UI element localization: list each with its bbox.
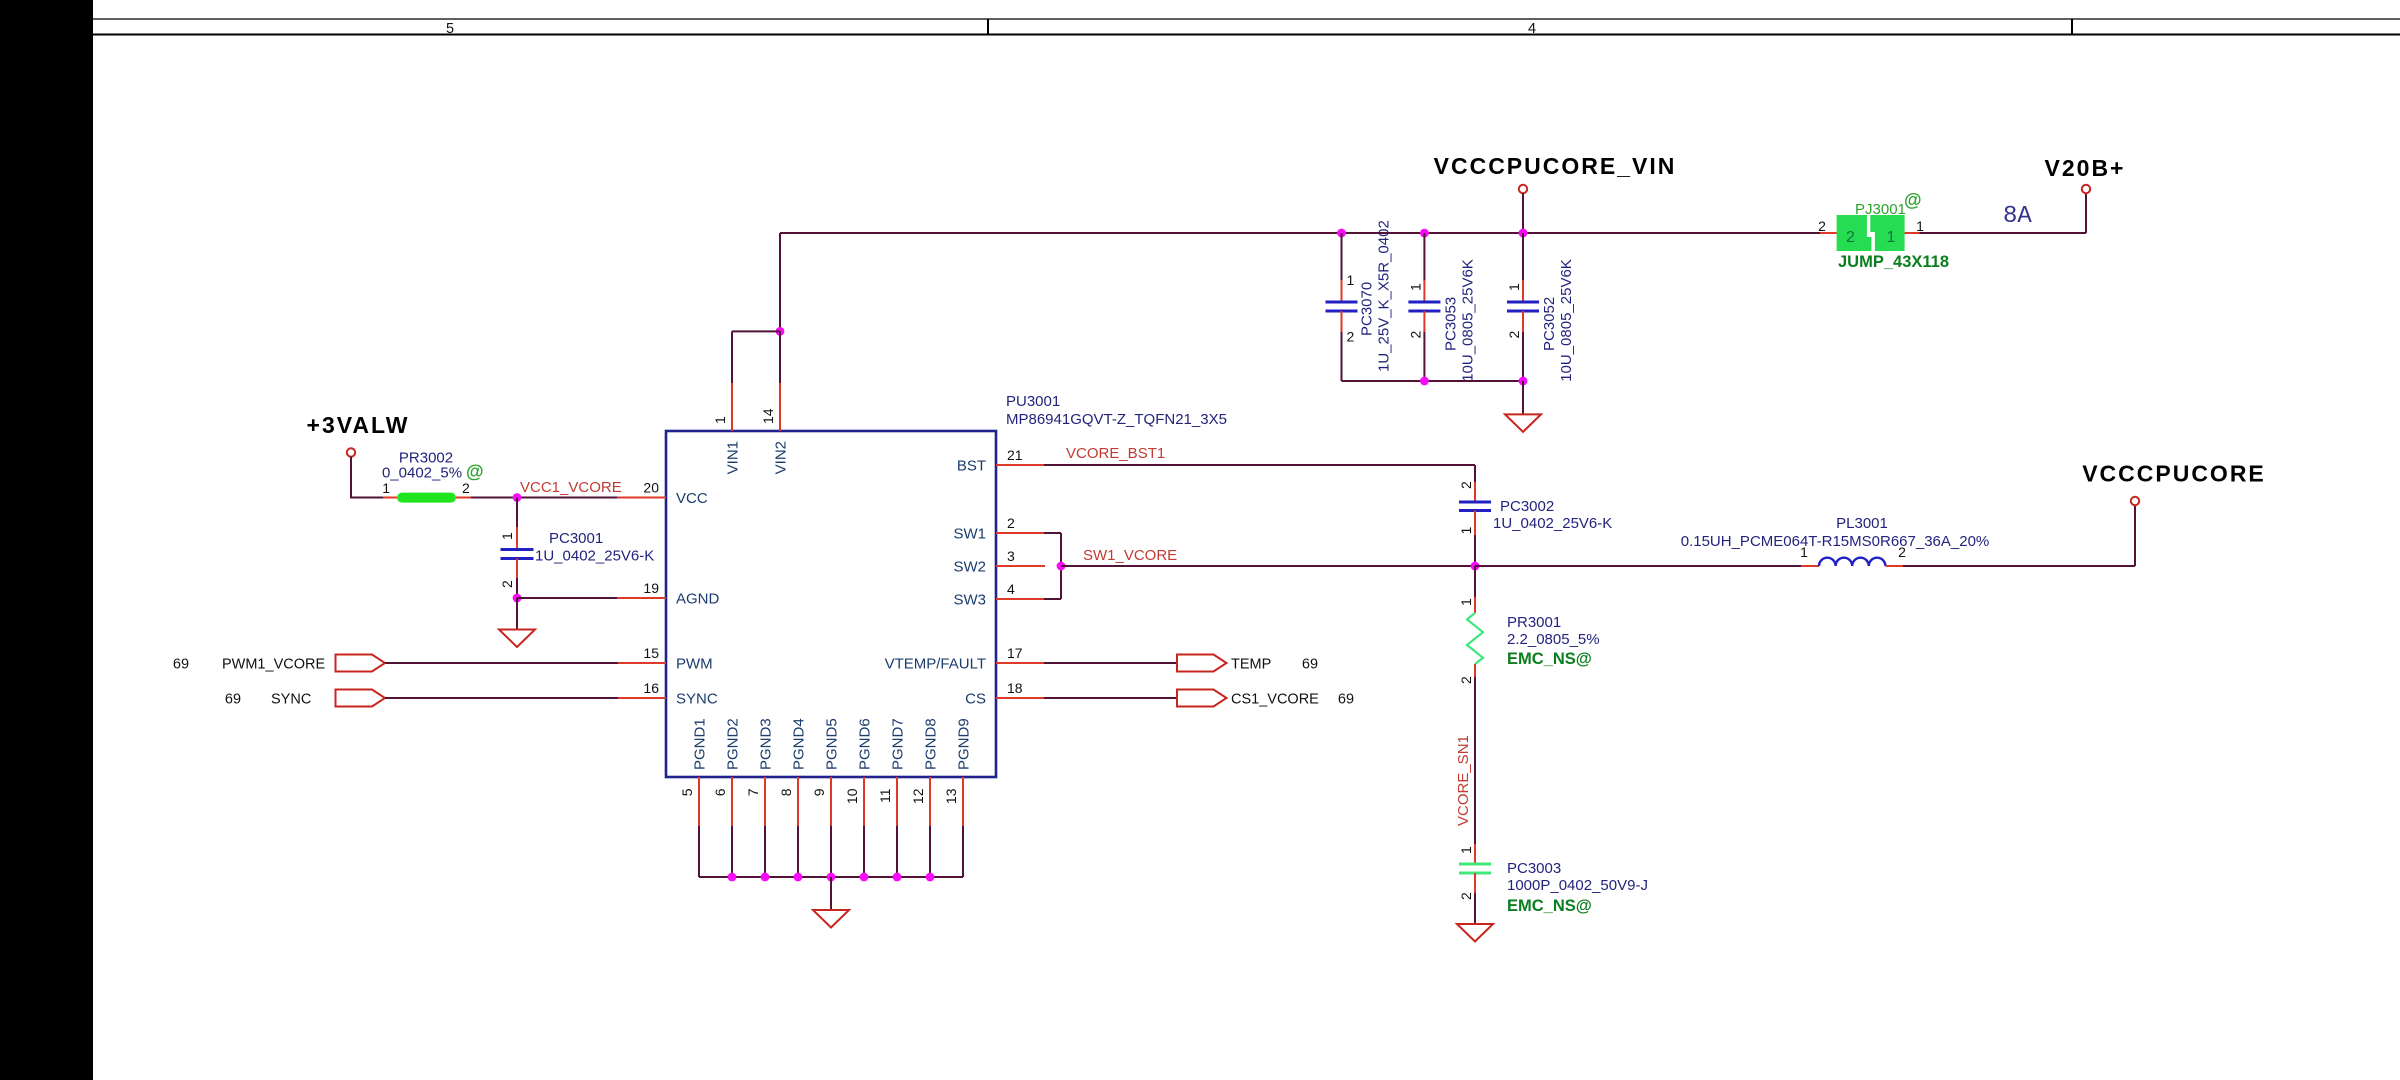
svg-text:1: 1 <box>1458 598 1474 606</box>
wire PGND9 down <box>962 826 964 877</box>
resistor PR3001 zigzag <box>1467 613 1483 664</box>
wire VIN1 drop <box>731 331 733 383</box>
svg-text:PGND2: PGND2 <box>725 718 742 770</box>
capacitor PC3003 plate top <box>1459 863 1491 866</box>
svg-text:5: 5 <box>446 21 454 37</box>
net connector arrow SYNC <box>336 690 386 707</box>
node PGND rail junction 4 <box>827 873 836 882</box>
capacitor PC3070 stub 2 <box>1341 311 1343 333</box>
pin 19 AGND stub <box>617 597 666 599</box>
wire VIN branch horizontal <box>732 330 780 332</box>
svg-text:69: 69 <box>173 657 189 673</box>
wire BST horizontal <box>1044 464 1475 466</box>
svg-text:PWM: PWM <box>676 656 713 673</box>
capacitor PC3052 stub 1 <box>1522 280 1524 302</box>
capacitor PC3070 plate bottom <box>1326 310 1358 313</box>
capacitor PC3053 plate top <box>1408 301 1440 304</box>
sheet border line top <box>93 18 2400 20</box>
svg-text:8A: 8A <box>2003 203 2032 230</box>
capacitor PC3053 wire top <box>1423 233 1425 281</box>
capacitor PC3002 plate bottom <box>1459 509 1491 512</box>
svg-text:SW1_VCORE: SW1_VCORE <box>1083 547 1177 564</box>
wire SW horizontal <box>1061 565 1475 567</box>
svg-text:2: 2 <box>1458 892 1474 900</box>
capacitor PC3052 wire top <box>1522 233 1524 281</box>
jumper PJ3001 slot <box>1867 215 1875 251</box>
wire PC3002 to SW node <box>1474 535 1476 566</box>
capacitor PC3002 stub 1 <box>1474 511 1476 537</box>
svg-text:CS1_VCORE: CS1_VCORE <box>1231 692 1319 708</box>
node bus junction PC3053 <box>1420 229 1429 238</box>
svg-text:SW2: SW2 <box>953 559 986 576</box>
svg-text:1: 1 <box>1458 846 1474 854</box>
pin 21 BST stub <box>996 464 1045 466</box>
sheet border tick 2 <box>2071 19 2073 35</box>
svg-text:12: 12 <box>910 788 926 804</box>
pin 13 PGND9 stub <box>962 777 964 827</box>
wire SW connector vertical <box>1060 533 1062 599</box>
pin 3 SW2 stub <box>996 565 1045 567</box>
svg-text:4: 4 <box>1528 21 1536 37</box>
node VIN branch junction <box>776 327 785 336</box>
svg-text:2: 2 <box>1818 218 1826 234</box>
svg-text:69: 69 <box>1302 657 1318 673</box>
capacitor PC3052 plate bottom <box>1507 310 1539 313</box>
svg-text:VCC: VCC <box>676 490 708 507</box>
svg-text:20: 20 <box>643 480 659 496</box>
ground PC3003 <box>1457 924 1493 942</box>
svg-text:10U_0805_25V6K: 10U_0805_25V6K <box>1459 259 1476 382</box>
svg-text:2: 2 <box>1347 329 1355 345</box>
svg-text:PGND6: PGND6 <box>857 718 874 770</box>
wire SW1 to connector <box>1044 532 1061 534</box>
pin 6 PGND2 stub <box>731 777 733 827</box>
svg-text:+3VALW: +3VALW <box>307 412 410 438</box>
svg-text:VCORE_BST1: VCORE_BST1 <box>1066 445 1165 462</box>
node PGND rail junction 2 <box>761 873 770 882</box>
svg-text:2: 2 <box>1458 676 1474 684</box>
pin 18 CS stub <box>996 697 1045 699</box>
wire PGND ground stem <box>830 877 832 910</box>
svg-text:PGND4: PGND4 <box>791 718 808 770</box>
svg-text:18: 18 <box>1007 680 1023 696</box>
svg-text:1: 1 <box>1506 283 1522 291</box>
svg-text:1: 1 <box>499 532 515 540</box>
svg-text:1U_25V_K_X5R_0402: 1U_25V_K_X5R_0402 <box>1376 220 1393 372</box>
svg-text:11: 11 <box>877 788 893 803</box>
node SW junction <box>1057 562 1066 571</box>
wire BST corner down <box>1474 465 1476 483</box>
wire VIN ground stem <box>1522 381 1524 414</box>
wire VIN2 drop <box>779 331 781 383</box>
resistor PR3001 stub 2 <box>1474 664 1476 678</box>
wire caps bottom rail <box>1342 380 1524 382</box>
svg-text:PC3001: PC3001 <box>549 530 603 547</box>
svg-text:MP86941GQVT-Z_TQFN21_3X5: MP86941GQVT-Z_TQFN21_3X5 <box>1006 411 1227 428</box>
node AGND junction <box>513 594 522 603</box>
wire bus corner down <box>779 233 781 331</box>
svg-text:PU3001: PU3001 <box>1006 393 1060 410</box>
jumper PJ3001 body <box>1837 215 1905 251</box>
pin 1 VIN1 stub <box>731 382 733 431</box>
wire V20B+ stem <box>2085 193 2087 233</box>
node PGND rail junction 6 <box>893 873 902 882</box>
svg-text:PJ3001: PJ3001 <box>1855 201 1906 218</box>
wire PGND4 down <box>797 826 799 877</box>
svg-text:13: 13 <box>943 788 959 804</box>
pin 5 PGND1 stub <box>698 777 700 827</box>
net connector arrow CS1_VCORE <box>1177 690 1227 707</box>
svg-text:7: 7 <box>745 788 761 796</box>
wire input bus <box>780 232 1820 234</box>
svg-text:VIN1: VIN1 <box>725 441 742 474</box>
svg-text:15: 15 <box>643 645 659 661</box>
pin 14 VIN2 stub <box>779 382 781 431</box>
pin 15 PWM stub <box>617 662 666 664</box>
svg-text:19: 19 <box>643 580 659 596</box>
svg-text:1: 1 <box>1347 272 1355 288</box>
pin 7 PGND3 stub <box>764 777 766 827</box>
pin 16 SYNC stub <box>617 697 666 699</box>
wire PGND5 down <box>830 826 832 877</box>
svg-text:3: 3 <box>1007 548 1015 564</box>
resistor PR3001 stub 1 <box>1474 597 1476 613</box>
op-amp U PU3001 body <box>666 431 996 777</box>
svg-text:14: 14 <box>760 408 776 424</box>
svg-text:VIN2: VIN2 <box>773 441 790 474</box>
svg-text:PC3070: PC3070 <box>1359 282 1376 336</box>
capacitor PC3070 plate top <box>1326 301 1358 304</box>
svg-text:1: 1 <box>1407 283 1423 291</box>
svg-text:1: 1 <box>712 416 728 424</box>
svg-text:9: 9 <box>811 788 827 796</box>
svg-text:17: 17 <box>1007 645 1023 661</box>
wire CS to arrow <box>1044 697 1177 699</box>
wire SW3 to connector <box>1044 598 1061 600</box>
svg-text:2: 2 <box>1407 331 1423 339</box>
pin 2 SW1 stub <box>996 532 1045 534</box>
wire AGND ground stem <box>516 598 518 630</box>
pin 12 PGND8 stub <box>929 777 931 827</box>
svg-text:0.15UH_PCME064T-R15MS0R667_36A: 0.15UH_PCME064T-R15MS0R667_36A_20% <box>1681 533 1990 550</box>
svg-text:PWM1_VCORE: PWM1_VCORE <box>222 657 325 673</box>
terminal V20B+ <box>2082 185 2090 193</box>
svg-text:10: 10 <box>844 788 860 804</box>
svg-text:VCC1_VCORE: VCC1_VCORE <box>520 479 622 496</box>
svg-text:4: 4 <box>1007 581 1015 597</box>
svg-text:1: 1 <box>1916 218 1924 234</box>
wire VCCCPUCORE stem <box>2134 505 2136 566</box>
svg-text:JUMP_43X118: JUMP_43X118 <box>1838 253 1949 271</box>
svg-text:2: 2 <box>1007 515 1015 531</box>
svg-text:5: 5 <box>679 788 695 796</box>
svg-text:6: 6 <box>712 788 728 796</box>
capacitor PC3002 stub 2 <box>1474 482 1476 502</box>
wire PC3001 to AGND row <box>516 578 518 598</box>
svg-text:SW3: SW3 <box>953 592 986 609</box>
pin 8 PGND4 stub <box>797 777 799 827</box>
net connector arrow TEMP <box>1177 655 1227 672</box>
svg-text:1U_0402_25V6-K: 1U_0402_25V6-K <box>535 548 654 565</box>
capacitor PC3053 wire bottom <box>1423 332 1425 381</box>
net connector arrow PWM1_VCORE <box>336 655 386 672</box>
ground AGND <box>499 630 535 648</box>
svg-text:@: @ <box>466 462 484 482</box>
wire SYNC to IC <box>385 697 618 699</box>
jumper PJ3001 stub 2 <box>1820 232 1837 234</box>
svg-text:PC3002: PC3002 <box>1500 498 1554 515</box>
svg-text:VCORE_SN1: VCORE_SN1 <box>1455 735 1472 826</box>
wire jumper to V20B+ <box>1920 232 2087 234</box>
svg-text:1000P_0402_50V9-J: 1000P_0402_50V9-J <box>1507 877 1648 894</box>
svg-text:10U_0805_25V6K: 10U_0805_25V6K <box>1558 259 1575 382</box>
wire PGND6 down <box>863 826 865 877</box>
wire SW junction down <box>1474 566 1476 598</box>
ground VIN caps <box>1505 414 1541 432</box>
svg-text:AGND: AGND <box>676 591 720 608</box>
wire +3VALW down <box>350 457 352 498</box>
svg-text:PC3052: PC3052 <box>1541 297 1558 351</box>
capacitor PC3002 plate top <box>1459 501 1491 504</box>
wire PWM1_VCORE to IC <box>385 662 618 664</box>
svg-text:1U_0402_25V6-K: 1U_0402_25V6-K <box>1493 515 1612 532</box>
svg-text:PGND9: PGND9 <box>956 718 973 770</box>
wire PGND2 down <box>731 826 733 877</box>
svg-text:VCCCPUCORE_VIN: VCCCPUCORE_VIN <box>1434 153 1677 179</box>
svg-text:PR3001: PR3001 <box>1507 614 1561 631</box>
svg-text:2.2_0805_5%: 2.2_0805_5% <box>1507 631 1600 648</box>
wire VCCCPUCORE_VIN stem <box>1522 193 1524 233</box>
svg-text:SYNC: SYNC <box>676 691 718 708</box>
svg-text:PC3053: PC3053 <box>1442 297 1459 351</box>
svg-text:1: 1 <box>1887 229 1896 246</box>
svg-text:@: @ <box>1904 190 1922 210</box>
capacitor PC3001 stub 1 <box>516 527 518 550</box>
wire VTEMP to arrow <box>1044 662 1177 664</box>
svg-text:2: 2 <box>499 580 515 588</box>
capacitor PC3053 stub 2 <box>1423 311 1425 333</box>
jumper PJ3001 stub 1 <box>1905 232 1921 234</box>
resistor PR3002 body <box>397 493 456 503</box>
svg-text:2: 2 <box>1846 229 1855 246</box>
resistor PR3002 stub 1 <box>383 497 397 499</box>
ground PGND <box>813 910 849 928</box>
svg-text:8: 8 <box>778 788 794 796</box>
capacitor PC3052 plate top <box>1507 301 1539 304</box>
svg-text:VTEMP/FAULT: VTEMP/FAULT <box>885 656 986 673</box>
terminal VCCCPUCORE_VIN <box>1519 185 1527 193</box>
svg-text:2: 2 <box>1458 481 1474 489</box>
svg-text:EMC_NS@: EMC_NS@ <box>1507 650 1592 668</box>
inductor PL3001 stub 2 <box>1885 565 1903 567</box>
svg-text:BST: BST <box>957 458 986 475</box>
svg-text:SYNC: SYNC <box>271 692 311 708</box>
pin 17 VTEMP/FAULT stub <box>996 662 1045 664</box>
sheet border tick 1 <box>987 19 989 35</box>
pin 10 PGND6 stub <box>863 777 865 827</box>
pin 20 VCC stub <box>617 497 666 499</box>
terminal VCCCPUCORE <box>2131 497 2139 505</box>
svg-text:PGND3: PGND3 <box>758 718 775 770</box>
svg-text:0_0402_5%: 0_0402_5% <box>382 465 462 482</box>
capacitor PC3070 wire bottom <box>1341 332 1343 381</box>
wire AGND to IC <box>517 597 617 599</box>
capacitor PC3053 plate bottom <box>1408 310 1440 313</box>
resistor PR3002 stub 2 <box>456 497 472 499</box>
node PGND rail junction 1 <box>728 873 737 882</box>
wire SW to inductor <box>1475 565 1802 567</box>
svg-text:CS: CS <box>965 691 986 708</box>
svg-text:V20B+: V20B+ <box>2045 155 2126 181</box>
terminal +3VALW <box>347 448 355 456</box>
node VCC1_VCORE junction <box>513 493 522 502</box>
capacitor PC3001 stub 2 <box>516 559 518 580</box>
wire junction down to PC3001 <box>516 498 518 529</box>
capacitor PC3052 wire bottom <box>1522 332 1524 381</box>
wire PGND8 down <box>929 826 931 877</box>
node PGND rail junction 5 <box>860 873 869 882</box>
svg-text:PC3003: PC3003 <box>1507 860 1561 877</box>
svg-text:1: 1 <box>382 480 390 496</box>
wire PGND bottom rail <box>699 876 963 878</box>
svg-text:SW1: SW1 <box>953 526 986 543</box>
sheet border line bottom of band <box>93 34 2400 36</box>
svg-text:PGND8: PGND8 <box>923 718 940 770</box>
capacitor PC3001 plate bottom <box>501 557 534 560</box>
node rail junction PC3052 <box>1519 377 1528 386</box>
capacitor PC3052 stub 2 <box>1522 311 1524 333</box>
svg-text:21: 21 <box>1007 447 1023 463</box>
node SW PC3002 junction <box>1471 562 1480 571</box>
node rail junction PC3053 <box>1420 377 1429 386</box>
svg-text:2: 2 <box>462 480 470 496</box>
capacitor PC3070 stub 1 <box>1341 280 1343 302</box>
wire PC3003 to ground <box>1474 893 1476 924</box>
wire VCORE_SN1 <box>1474 677 1476 845</box>
pin 11 PGND7 stub <box>896 777 898 827</box>
svg-text:PGND7: PGND7 <box>890 718 907 770</box>
sheet margin black bar <box>0 0 93 1080</box>
wire PR3002 to VCC node <box>471 497 617 499</box>
svg-text:69: 69 <box>1338 692 1354 708</box>
wire inductor to VCCCPUCORE <box>1903 565 2135 567</box>
svg-text:VCCCPUCORE: VCCCPUCORE <box>2082 461 2266 487</box>
pin 4 SW3 stub <box>996 598 1045 600</box>
capacitor PC3001 plate top <box>501 548 534 551</box>
node PGND rail junction 7 <box>926 873 935 882</box>
capacitor PC3003 stub 2 <box>1474 873 1476 894</box>
capacitor PC3053 stub 1 <box>1423 280 1425 302</box>
svg-text:PGND1: PGND1 <box>692 718 709 770</box>
capacitor PC3003 plate bottom <box>1459 872 1491 875</box>
capacitor PC3070 wire top <box>1341 233 1343 281</box>
svg-text:69: 69 <box>225 692 241 708</box>
wire PGND7 down <box>896 826 898 877</box>
svg-text:PGND5: PGND5 <box>824 718 841 770</box>
node bus junction PC3052 <box>1519 229 1528 238</box>
svg-text:PL3001: PL3001 <box>1836 515 1888 532</box>
node PGND rail junction 3 <box>794 873 803 882</box>
svg-text:16: 16 <box>643 680 659 696</box>
capacitor PC3003 stub 1 <box>1474 844 1476 864</box>
inductor PL3001 stub 1 <box>1801 565 1819 567</box>
pin 9 PGND5 stub <box>830 777 832 827</box>
wire PGND1 down <box>698 826 700 877</box>
svg-text:TEMP: TEMP <box>1231 657 1271 673</box>
svg-text:EMC_NS@: EMC_NS@ <box>1507 897 1592 915</box>
inductor PL3001 coils <box>1819 558 1885 566</box>
svg-text:2: 2 <box>1506 331 1522 339</box>
wire +3VALW to PR3002 <box>350 497 384 499</box>
wire PGND3 down <box>764 826 766 877</box>
node bus junction PC3070 <box>1337 229 1346 238</box>
svg-text:1: 1 <box>1458 527 1474 535</box>
